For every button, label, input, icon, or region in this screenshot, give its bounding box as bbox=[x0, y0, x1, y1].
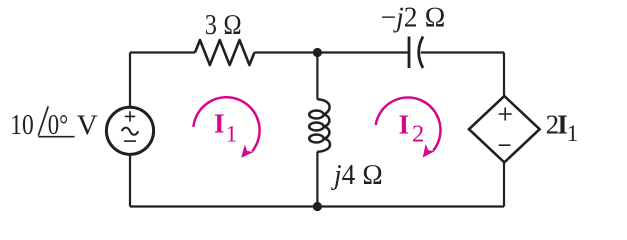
svg-text:−j2 Ω: −j2 Ω bbox=[381, 3, 446, 34]
svg-text:I: I bbox=[214, 109, 225, 139]
svg-text:1: 1 bbox=[567, 121, 579, 146]
svg-text:10: 10 bbox=[10, 109, 34, 141]
svg-text:2: 2 bbox=[412, 121, 424, 148]
svg-text:1: 1 bbox=[226, 121, 238, 146]
svg-text:3 Ω: 3 Ω bbox=[205, 10, 242, 41]
svg-text:I: I bbox=[399, 110, 410, 140]
svg-text:j4 Ω: j4 Ω bbox=[330, 160, 383, 191]
svg-text:V: V bbox=[77, 110, 98, 142]
